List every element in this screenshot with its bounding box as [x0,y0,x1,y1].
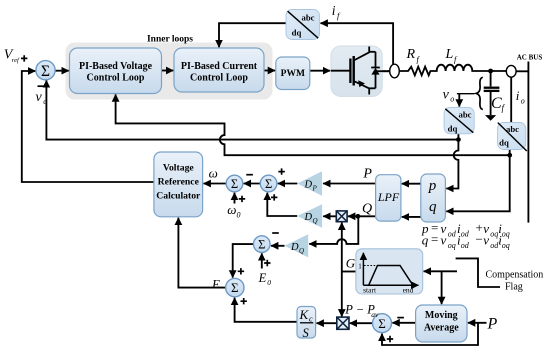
svg-text:i: i [516,88,520,103]
svg-text:K: K [299,307,310,322]
svg-text:D: D [304,180,313,191]
svg-text:f: f [502,103,506,113]
svg-text:start: start [363,286,377,295]
svg-text:Compensation: Compensation [486,270,544,281]
svg-text:R: R [406,47,416,62]
svg-text:Average: Average [424,323,459,334]
svg-text:f: f [454,54,458,64]
svg-text:ω: ω [209,166,218,181]
svg-text:Σ: Σ [378,316,386,331]
svg-text:S: S [303,326,310,340]
svg-text:PI-Based Voltage: PI-Based Voltage [79,61,153,72]
svg-text:E: E [211,276,220,291]
svg-text:Q: Q [299,247,304,255]
svg-text:PI-Based Current: PI-Based Current [181,61,258,72]
svg-text:Σ: Σ [41,63,50,80]
svg-text:v: v [36,90,43,105]
svg-text:oq: oq [502,230,510,239]
svg-text:o: o [521,97,525,106]
svg-text:0: 0 [237,210,241,219]
svg-text:0: 0 [267,278,271,287]
svg-text:Voltage: Voltage [163,163,195,174]
svg-text:Reference: Reference [158,177,200,188]
svg-text:Control Loop: Control Loop [87,73,145,84]
svg-text:D: D [304,212,313,223]
svg-text:Moving: Moving [425,310,458,321]
svg-text:od: od [448,230,457,239]
svg-text:Calculator: Calculator [156,191,201,202]
svg-text:f: f [417,54,421,64]
svg-text:PWM: PWM [281,69,305,79]
svg-text:Σ: Σ [265,177,272,191]
svg-text:E: E [258,271,267,285]
svg-text:q: q [429,199,437,215]
svg-text:av: av [371,310,379,319]
svg-text:AC BUS: AC BUS [517,54,543,62]
svg-text:v: v [443,88,450,103]
svg-text:Control Loop: Control Loop [190,73,248,84]
svg-text:dq: dq [292,28,302,38]
svg-text:p: p [428,178,437,194]
svg-text:C: C [491,95,502,112]
svg-text:L: L [445,47,454,62]
svg-text:Σ: Σ [258,237,265,251]
svg-text:abc: abc [458,110,471,120]
svg-text:dq: dq [499,138,509,148]
svg-text:Σ: Σ [231,177,238,191]
svg-text:Flag: Flag [505,282,523,293]
svg-text:od: od [461,241,470,250]
svg-text:od: od [461,230,470,239]
svg-text:abc: abc [506,124,519,134]
svg-text:v: v [483,233,489,248]
svg-text:=: = [431,232,438,247]
svg-text:oq: oq [448,241,456,250]
svg-text:i: i [332,3,336,18]
svg-text:D: D [290,242,299,253]
svg-text:v: v [441,233,447,248]
svg-text:LPF: LPF [377,190,400,204]
svg-text:Σ: Σ [231,280,239,295]
svg-text:oq: oq [502,241,510,250]
svg-text:oq: oq [490,230,498,239]
svg-text:o: o [43,97,47,106]
svg-text:1: 1 [358,263,362,271]
svg-text:P: P [312,185,318,193]
svg-text:q: q [422,233,429,248]
svg-text:Inner loops: Inner loops [147,35,193,45]
svg-text:−: − [476,232,483,247]
svg-text:f: f [337,11,341,21]
svg-text:Q: Q [313,217,318,225]
svg-text:P: P [362,167,372,182]
svg-text:P: P [487,316,498,333]
svg-text:dq: dq [448,124,458,134]
svg-text:ω: ω [227,202,236,217]
svg-text:o: o [450,95,454,104]
svg-text:Q: Q [362,202,372,217]
svg-text:ref: ref [12,57,20,64]
svg-text:abc: abc [301,13,314,23]
svg-text:end: end [403,286,414,295]
svg-text:G: G [346,255,356,270]
